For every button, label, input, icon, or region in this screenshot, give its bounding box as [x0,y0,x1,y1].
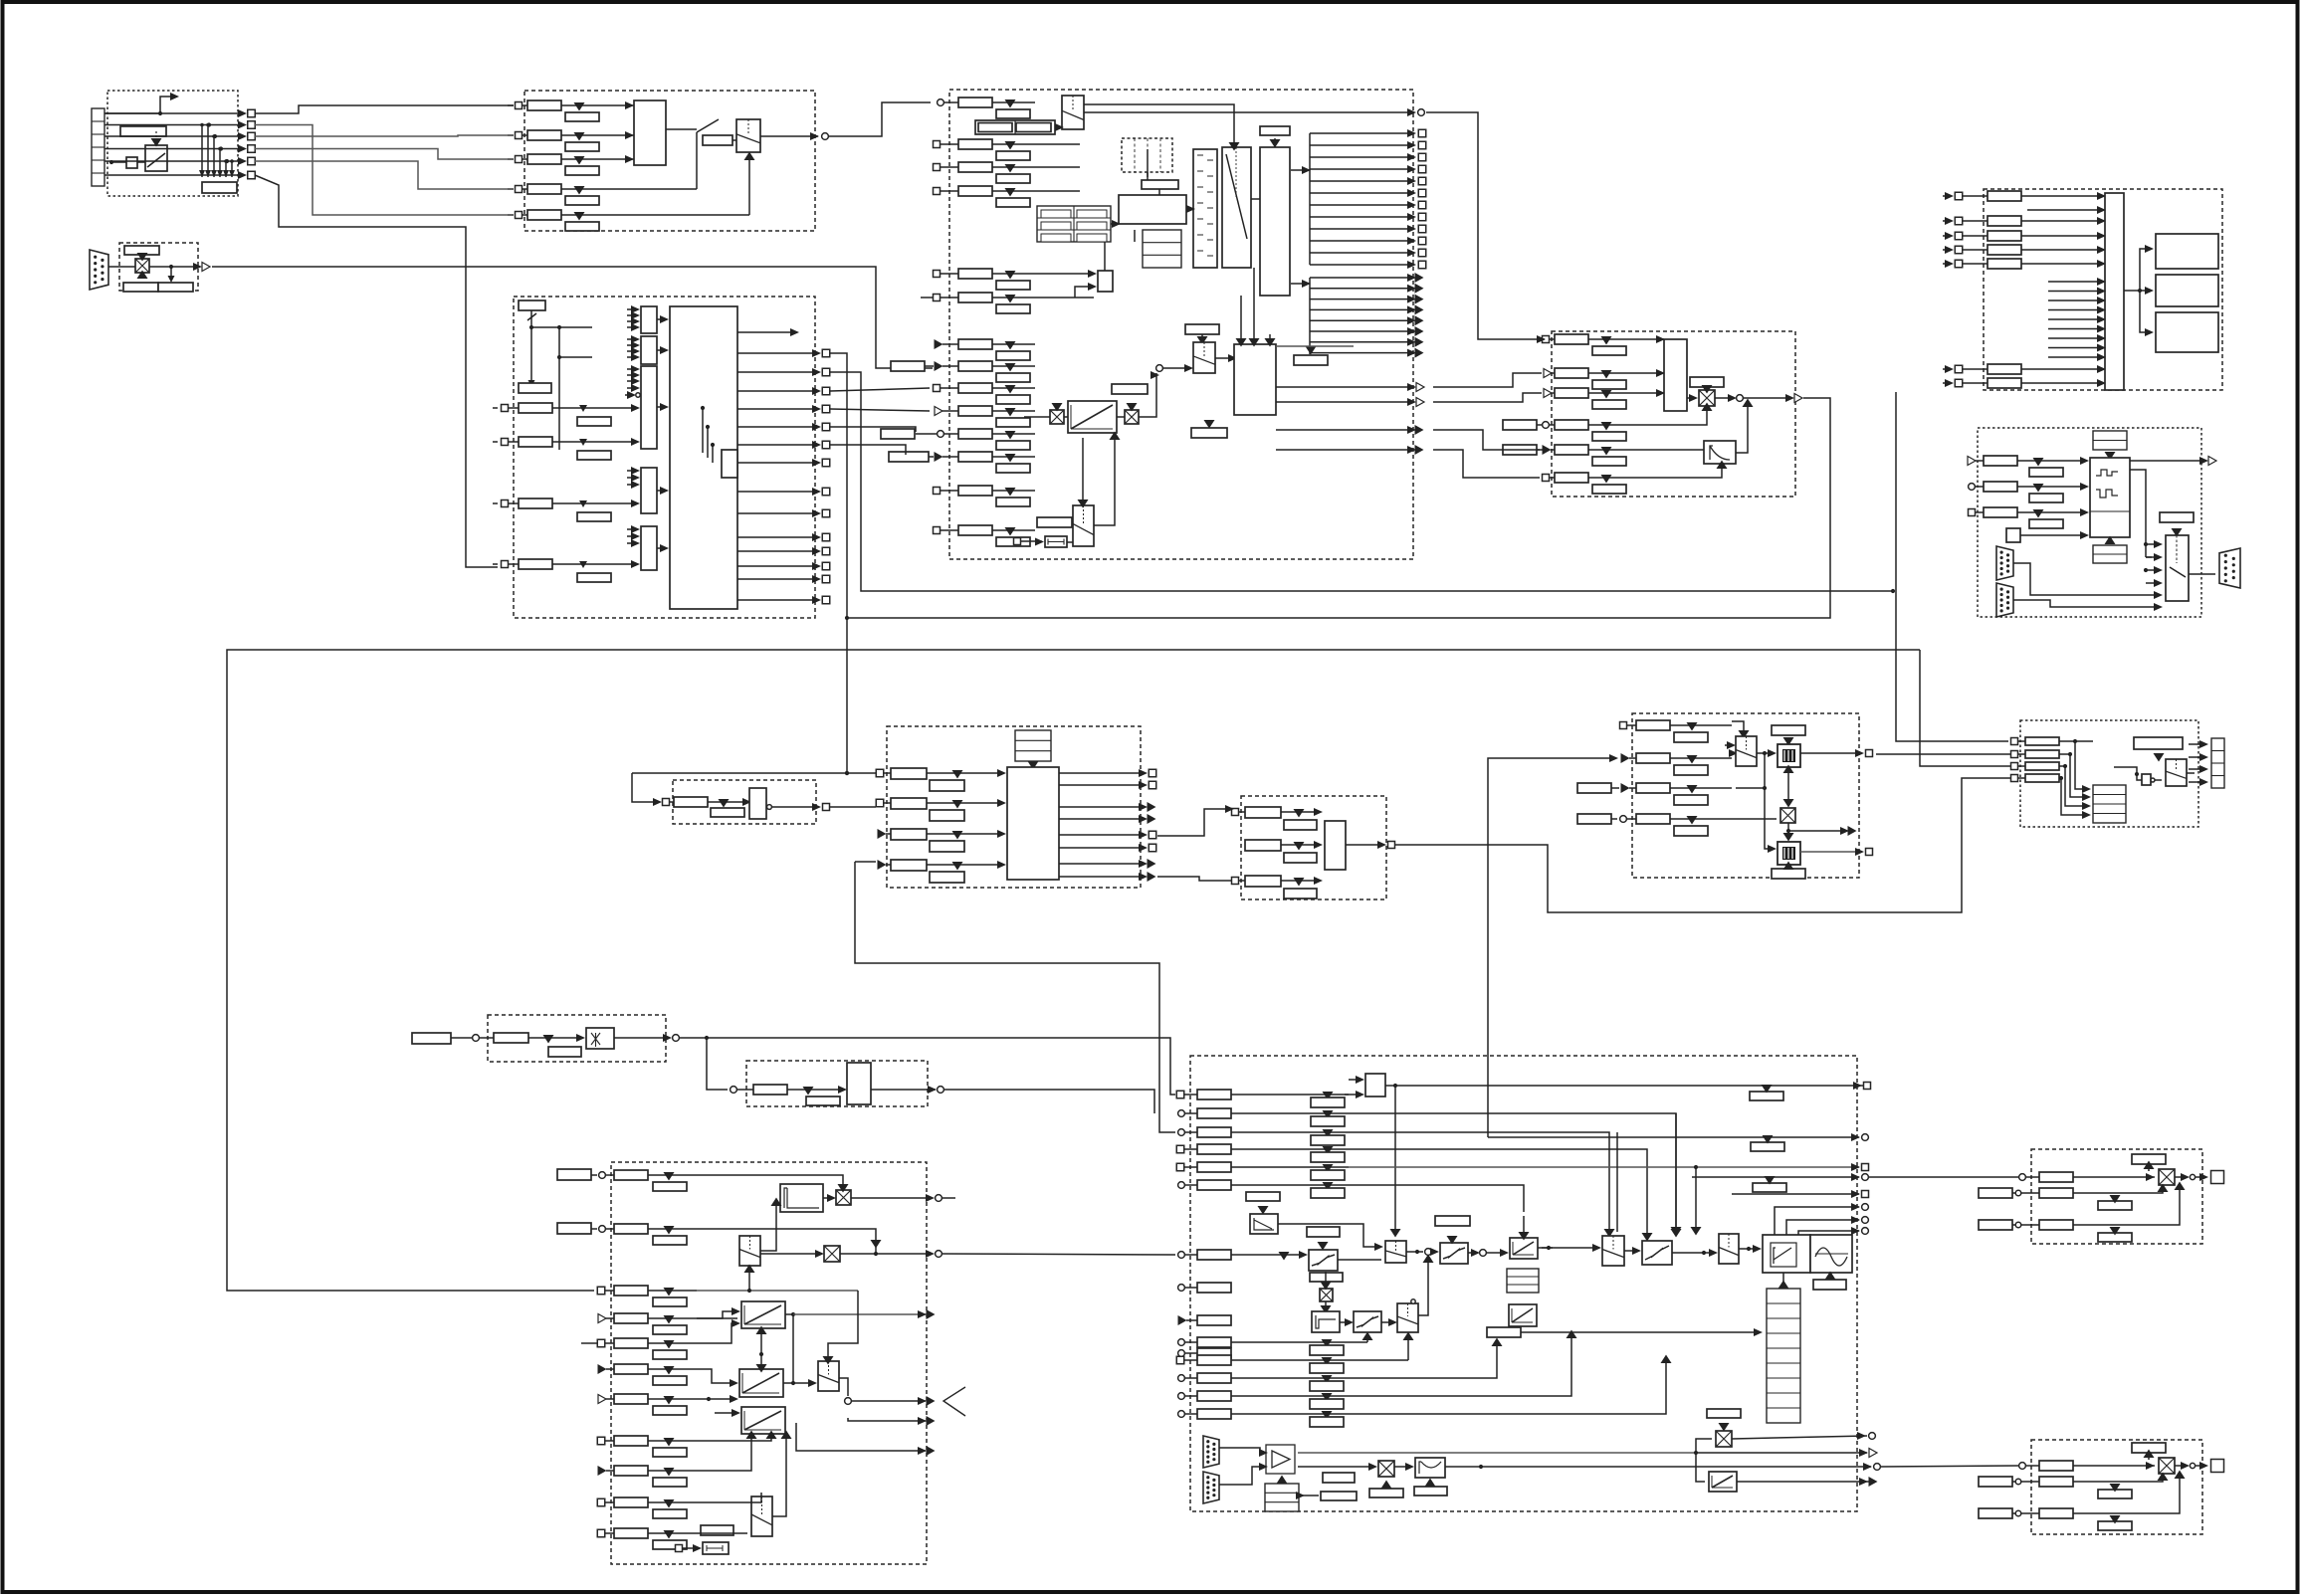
tall collector block E [2105,193,2124,390]
3row table M right [1507,1269,1539,1293]
wire K trunk [680,1037,707,1039]
input port M5 [1176,1163,1184,1171]
parameter row I4 [1636,814,1670,824]
wire C otri outputs to D rows [1433,373,1542,387]
parameter row B4 [522,188,527,190]
wires amp chain [1298,1466,1374,1468]
input port D1 [1543,336,1550,343]
lowpass block M [1250,1214,1278,1234]
wire H row4 down and right to flux block [855,862,1175,1132]
input port M2 [1178,1110,1185,1117]
output port DI-out13 [737,578,818,580]
parameter block DI top [519,300,545,310]
selector L2 [818,1361,839,1391]
slanted selector C [1222,147,1251,268]
input port E7 [1943,382,1951,384]
parameter row I2-2 [1245,840,1281,851]
dashed group box: speed correction [1241,796,1386,899]
sub block inside DI [722,450,737,478]
dashed group box: speed reference selection [524,91,815,231]
wire I row2 into selector [1732,752,1736,754]
input port E2 [1943,220,1951,222]
input port C3 [934,164,941,171]
row3 N2 [1979,1508,2012,1518]
display box E3 [2156,312,2218,352]
parameter row L7 [614,1394,648,1404]
input port I4 [1620,816,1627,823]
wire H trunk horizontal [632,772,876,774]
input port C11 [916,433,937,435]
wire N1 out [2175,1176,2187,1178]
fan-out wires to triangle ports [1310,277,1413,279]
fan-out wire to status circle port [1084,111,1413,113]
small input block M top [1365,1074,1385,1097]
selector M2 [1385,1241,1406,1263]
wire row3 bus [697,1290,858,1292]
input port E3 [1943,235,1951,237]
wire selector to tall block [1251,198,1260,200]
parameter block B6 [703,135,732,145]
input port E6 [1943,368,1951,370]
parameter row L5 [614,1338,648,1348]
table 2x3 block [1037,206,1111,242]
vertical table M bottom [1767,1289,1800,1423]
big merge arrow symbol [943,1387,965,1416]
limiter block D [1704,441,1736,464]
display box E2 [2156,275,2218,306]
parameter row H4 [891,860,927,871]
PI block C [1234,344,1276,415]
ramp block M right bottom [1709,1472,1737,1492]
wire M top junction [1393,1084,1397,1088]
wire bus verticals with arrows [201,125,203,178]
dashed group box: torque limiter [1632,713,1859,878]
parameter row D3 [1555,388,1588,398]
output port H-out6 [1059,847,1145,849]
parameter row DI3 [509,502,519,504]
comparator column block [1193,149,1217,268]
input port Hn [663,799,670,806]
wire amp top grey [1298,1452,1696,1454]
DB9 M1 [1203,1436,1219,1468]
input port L11 [597,1529,605,1537]
input port C8 [906,365,934,367]
vertical fan bus 2 [1309,278,1311,354]
input port D3 [1544,389,1552,398]
parameter row B2 [522,134,527,136]
input port L6 [598,1364,607,1374]
wire M row7 to scurve [1231,1254,1305,1256]
parameter blocks M bottom [1323,1473,1355,1483]
ramp block L3 [741,1407,785,1434]
input port L7 [598,1395,606,1404]
parameter block M6 [1197,1180,1231,1190]
row2 N2 [1979,1477,2012,1487]
wire trunk G row2 to speed measurement [830,372,1893,591]
dashed group box: analogue output AO2 [2031,1440,2202,1534]
mux block G3 [641,366,657,449]
wire A row1 to B row1 [255,105,514,113]
input circle N2 [2019,1463,2026,1470]
table 3row block [1143,230,1181,268]
parameter block J4 [2025,774,2059,782]
junction dots DI [701,406,705,410]
wire M bottom outputs [1481,1466,1871,1468]
parameter row F2 [1984,482,2017,492]
bottom parameter 2row block F [2093,545,2127,563]
wire L out2 [840,1253,932,1255]
derivative block K [586,1028,614,1049]
input port Mb2 [1176,1356,1184,1364]
input port M4 [1176,1145,1184,1153]
parameter block DI result [519,383,551,393]
wire selector L1 out [760,1201,776,1251]
selector M1 [1397,1303,1418,1332]
parameter row D4 [1555,420,1588,430]
wire D output trunk down [847,398,1830,618]
parameter row I2-1 [1245,807,1281,818]
wire selector L2 top [828,1291,858,1357]
input port Mb4 [1178,1393,1185,1400]
ramp block L2 [739,1369,783,1397]
parameter row D5 [1555,445,1588,455]
parameter row C12 [958,452,992,462]
parameter row C10 [958,406,992,416]
parameter row C8 [958,361,992,371]
input port C12 [906,456,934,458]
output port DI-out11 [737,550,818,552]
aux block rows 5-6 [1098,271,1113,292]
output port DI-out2 [737,371,818,373]
parameter row I2 [1636,753,1670,763]
switch contact [666,128,697,130]
parameter row DI4 [509,563,519,565]
multiplier I [1780,808,1795,823]
parameter block above tall block [1260,126,1290,135]
wire limiter to sum [1736,402,1748,453]
wire A row2 down to B row5 [255,125,514,216]
DB9 connector encoder [90,250,108,290]
input port squares column [239,112,244,114]
port square C-bot [1014,538,1021,545]
input port L9 [598,1466,607,1476]
parameter block E2 [1987,216,2021,226]
parameter row D6 [1555,473,1588,483]
vertical link between ramps [760,1328,762,1369]
parameter row DI2 [509,441,519,443]
parameter block J3 [2025,762,2059,770]
input port L2 [557,1223,591,1234]
wire L row2 to mult2 [697,1229,876,1241]
double status word block [975,120,1055,134]
parameter under sine [1813,1280,1846,1290]
wires M cross verticals [1675,1113,1677,1234]
parameter block C-bot [1037,517,1072,527]
input port DI1 [493,407,498,409]
parameter block M4 [1197,1144,1231,1154]
input circle N1 [2019,1174,2026,1181]
wire row6/7 into ramp L2 [697,1398,735,1400]
serial selector block F [2166,535,2189,601]
input port F3 [1969,509,1976,516]
parameter row L8 [614,1436,648,1446]
input port I3 [1621,783,1630,793]
output port H-out2 [1059,784,1145,786]
output port DI-out6 [737,444,818,446]
wire row10 to selector L3 [697,1493,761,1502]
output port H-out1 [1059,772,1145,774]
selector block J [2166,759,2187,786]
wire I out row1 [1800,752,1861,754]
input port Mb3 [1178,1375,1185,1382]
output port DI-out14 [737,599,818,601]
dashed group box: speed filter [488,1015,666,1062]
output port DI-out12 [737,565,818,567]
wires big vertical drops in C [1240,296,1242,344]
input port M1 [1176,1091,1184,1098]
parameter block E4 [1987,245,2021,255]
dashed group box: reference and limit logic [949,90,1413,559]
wire DI branches [529,325,533,329]
parameter row DI1 [509,407,519,409]
input port DI3 [493,502,498,504]
input port C14 [934,527,941,534]
output stack J [2211,738,2224,788]
parameter row C5 [958,269,992,279]
parameter row L2 [614,1224,648,1234]
input port B3 [508,158,514,160]
top table H [1015,730,1051,761]
dashed group box: status and actual signals [1984,189,2222,390]
wire L bottom out [796,1423,926,1451]
sum circle D [1715,397,1735,399]
wire ramp chain [1024,416,1050,418]
parameter block J1 [2025,737,2059,745]
wire encoder to mult [108,266,135,268]
wire tall block top [1274,138,1276,147]
input port M7 [1178,1252,1185,1259]
wire F output triangle [2130,460,2204,462]
parameter row B5 [522,214,527,216]
parameter block right of PI [1294,355,1328,365]
wire row5 up to switch [748,155,750,215]
input port I1 [1620,722,1627,729]
row3 N1 [1979,1220,2012,1230]
input port L4 [598,1314,606,1323]
parameter block Mb2 [1197,1355,1231,1365]
input port H1 [876,769,884,777]
arrow fan into collector [2048,281,2103,283]
parameter row K2 [737,1089,753,1091]
wire collector top line [2027,209,2103,211]
parameter row L9 [614,1466,648,1476]
small rects above M output wires [1750,1092,1783,1100]
wire encoder output [149,266,195,268]
wires rows into ramp L1 [697,1323,737,1343]
wire selector L2 out [839,1378,848,1396]
wire row6 to limiter bottom [1692,464,1722,478]
arrows into output stack J [2189,743,2205,745]
parameter block E7 [1987,378,2021,388]
parameter row C6 [958,293,992,302]
input port C10 [935,407,942,416]
wire M out to N2 [1881,1466,2018,1467]
multiplier L2 [824,1246,840,1262]
input port B4 [508,188,514,190]
parameter row N2a [2039,1461,2073,1471]
wires chain mid M [1542,1247,1598,1249]
wire I2 internal [1346,844,1383,846]
input port J1 [2011,738,2018,745]
wire row4 to ramp [697,1317,737,1319]
dashed group box: encoder interface [119,243,198,291]
input port C1 [938,100,944,106]
tall logic block C [1260,147,1290,296]
input port C6 [921,297,933,299]
output port DI-out10 [737,536,818,538]
multiplier D [1699,390,1715,406]
wire ramp L1 out [785,1313,793,1315]
parameter row L4 [614,1313,648,1323]
parameter row C7 [958,339,992,349]
right parameter block J [2134,737,2183,749]
input port H4 [878,860,887,870]
amp block M bottom [1266,1445,1295,1474]
min-max block I2 [1778,842,1800,865]
selector L3 bottom [751,1496,772,1536]
parameter block M7 [1197,1250,1231,1260]
wire sel routing J [2114,766,2125,768]
wire N2 out [2175,1465,2187,1467]
input port L1 [557,1169,591,1180]
ramp block M right [1510,1238,1538,1259]
multiplier X encoder [135,259,149,273]
wire C-bot chain [1072,521,1073,523]
DB9 M2 [1203,1472,1219,1503]
wire dashed table down [1147,172,1149,177]
parameter row C4 [958,186,992,196]
input port C7 [935,339,943,349]
input port D2 [1544,369,1552,378]
wire big loop left to controller [227,650,1920,1291]
arrow fans into mux blocks [627,308,637,310]
input port J2 [2011,751,2018,758]
output port DI-out1 [737,352,818,354]
logic block [126,157,137,168]
wire rows into ramp L3 [697,1434,751,1471]
input port C9 [934,385,941,392]
parameter block D-mid [1690,377,1724,387]
wire L output lower [848,1418,926,1421]
wire mid block chain [1147,149,1149,180]
input port B1 [508,104,514,106]
multiplier M right [1716,1431,1732,1447]
parameter block I top [1772,725,1805,735]
square block F [2006,528,2020,542]
parameter row C11 [958,429,992,439]
wire H out row to I2 row3 [1157,877,1231,881]
ramp block L1 [741,1301,785,1328]
selector block B [634,100,666,165]
selector block I [1736,736,1757,766]
input port J4 [2011,775,2018,782]
wires M outputs right [1488,1136,1859,1138]
parameter block E1 [1987,191,2021,201]
parameter over mult M right [1707,1409,1741,1418]
wire M feedback verticals 2 [1616,1132,1618,1232]
parameter block [120,126,166,136]
dashed group box: encoder emulation and serial link [1978,428,2201,617]
parameter row I2-3 [1245,876,1281,887]
input port M8 [1178,1285,1185,1292]
dashed group box: terminal input block [107,91,238,196]
selector L1 [739,1236,760,1266]
wire row5 to limiter [1692,449,1704,451]
parameter row N1a [2039,1172,2073,1182]
wire PI outputs [1276,386,1413,388]
parameter row C14 [958,525,992,535]
input port C5 [934,271,941,278]
parameter row B3 [522,158,527,160]
wire scurve M3 out [1468,1252,1477,1254]
input port F1 [1968,457,1976,466]
output port DI-out3 [737,390,818,392]
mux block G1 [641,306,657,333]
center column small rects M bottom [1322,1339,1333,1348]
input port E5 [1943,263,1951,265]
input port I2-3 [1232,878,1239,885]
parameter row C1 [958,98,992,107]
wire E-F down to speed measurement [1896,392,2008,741]
wires G outputs to reference block ports [830,388,930,391]
wire A row5 to B row4 [255,161,514,189]
input port C13 [934,488,941,495]
output port DI-out5 [737,426,818,428]
mux block G4 [641,468,657,513]
input port B2 [508,134,514,136]
parameter block M8 [1197,1283,1231,1293]
wire M out to N1 [1869,1176,2018,1178]
wire into selector C2 [1162,367,1190,369]
input port Mb1 [1178,1339,1185,1346]
parameter block Mb3 [1197,1373,1231,1383]
wire NOT out [772,806,818,808]
parameter row C9 [958,383,992,393]
parameter row L1 [614,1170,648,1180]
wire A row6 diagonal to DI box [255,175,498,567]
parameter block M2 [1197,1108,1231,1118]
input port M10 [1178,1350,1185,1357]
input port Mb5 [1178,1411,1185,1418]
parameter row F3 [1984,507,2017,517]
wire K down branch [707,1038,728,1090]
input port DI4 [493,563,498,565]
input port L5 [581,1342,597,1344]
output port H-out8 [1059,876,1145,878]
input port J3 [2011,763,2018,770]
wire K1 out [614,1037,669,1039]
wire D output [1744,397,1791,399]
wire row4 to mult bottom [1692,406,1707,425]
wires I internal [1757,752,1774,754]
main DI logic block [670,306,737,609]
parameter row I3 [1636,783,1670,793]
wire selector M2 out [1406,1251,1423,1253]
input port M3 [1178,1129,1185,1136]
parameter row I1 [1636,720,1670,730]
wires M bottom rows [1231,1341,1367,1343]
wire terminal fan [105,112,160,114]
